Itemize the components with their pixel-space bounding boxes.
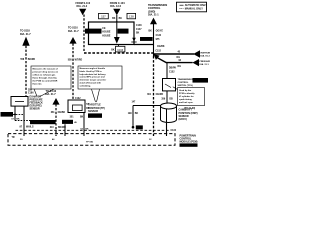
note box: PFE sensor note	[31, 66, 71, 89]
note box 2 callout V tail	[92, 89, 100, 102]
svg-text:BK: BK	[136, 32, 140, 34]
svg-text:BK/RD: BK/RD	[28, 59, 36, 61]
connector arrow TO S-110 (up arrow, x=56)	[45, 90, 60, 105]
svg-text:flow rate.: flow rate.	[33, 82, 43, 85]
wire dashed from pin x=15 to connector bar	[15, 120, 31, 122]
svg-text:MODULE (PCM): MODULE (PCM)	[180, 141, 198, 144]
svg-text:INSTRUMENT: INSTRUMENT	[200, 52, 210, 54]
svg-text:361: 361	[147, 94, 152, 96]
svg-text:DIA. 21-2: DIA. 21-2	[77, 5, 88, 8]
note box: TP sensor note	[78, 66, 122, 89]
connector bar C132b (black)	[62, 120, 73, 124]
svg-text:BK: BK	[16, 119, 20, 121]
svg-text:WH/LG: WH/LG	[26, 126, 34, 128]
svg-text:46: 46	[52, 138, 55, 141]
PFE sensor box	[11, 97, 28, 107]
wire arrowhead into module right edge	[131, 38, 136, 42]
svg-text:57: 57	[11, 119, 14, 121]
svg-text:OG/YE: OG/YE	[156, 30, 164, 32]
wire branch x=167 down to O/D switch	[166, 63, 168, 79]
svg-text:TP SIG: TP SIG	[86, 141, 93, 143]
svg-text:CONTROL: CONTROL	[178, 82, 189, 84]
note box callout tail	[173, 87, 178, 90]
connector arrow TO PRESSURE SW (left-pointing)	[192, 59, 212, 66]
svg-text:40: 40	[177, 51, 180, 54]
svg-text:975: 975	[156, 39, 161, 41]
svg-text:flows through. Used by: flows through. Used by	[33, 76, 58, 79]
svg-text:C156: C156	[120, 32, 126, 34]
wire from C-104 arrow to bus	[116, 15, 118, 22]
connector bar C156 (black)	[118, 29, 129, 34]
wire dashed vertical x=153.5 to PCM	[153, 56, 155, 136]
svg-text:CE: CE	[102, 28, 106, 30]
label THROTTLE POSITION (TP) SENSOR	[88, 104, 105, 113]
svg-text:SENSOR: SENSOR	[88, 110, 98, 113]
svg-text:C132: C132	[65, 122, 71, 124]
svg-text:and fuel sync.: and fuel sync.	[179, 102, 194, 104]
wire from switch to CMP sensor	[166, 91, 168, 104]
svg-text:the PCM to control EGR: the PCM to control EGR	[33, 79, 58, 82]
svg-text:OG/RD: OG/RD	[156, 94, 164, 96]
svg-text:138: 138	[129, 15, 134, 19]
svg-text:359: 359	[161, 99, 166, 101]
svg-text:G104: G104	[4, 115, 10, 117]
svg-text:C175: C175	[90, 32, 96, 34]
connector bar S30 (black, small)	[136, 125, 143, 129]
wire dashed from ground bar to pin	[13, 113, 23, 115]
svg-text:Measures the amount of: Measures the amount of	[33, 67, 58, 70]
svg-text:C132: C132	[156, 35, 162, 37]
svg-text:C186: C186	[28, 93, 34, 95]
svg-text:HOUSE: HOUSE	[102, 35, 111, 37]
svg-text:spark timing: spark timing	[179, 98, 192, 101]
svg-text:MANUAL ONLY: MANUAL ONLY	[185, 8, 204, 11]
svg-text:DIA. 13-6: DIA. 13-6	[110, 5, 121, 8]
legend box	[177, 2, 208, 12]
wire x=115.7 into module with down arrowhead	[114, 21, 120, 44]
svg-text:TR: TR	[12, 137, 15, 139]
PFE pin wire x=24 to PCM	[23, 106, 25, 136]
PFE pin wire x=15	[14, 106, 16, 120]
svg-text:C147: C147	[136, 28, 142, 31]
label TRANSMISSION CONTROL SWITCH	[178, 78, 195, 87]
junction dot on pin x=15	[14, 113, 16, 115]
svg-text:HOUSE: HOUSE	[102, 32, 111, 34]
svg-text:C149: C149	[197, 81, 203, 83]
svg-text:TRANSMISSION: TRANSMISSION	[178, 78, 195, 81]
svg-text:558: 558	[68, 59, 73, 61]
fuse label box 138	[127, 13, 136, 18]
svg-text:157: 157	[101, 15, 106, 19]
svg-text:147: 147	[132, 101, 137, 104]
svg-text:S110 C132: S110 C132	[37, 123, 49, 125]
svg-text:BK: BK	[111, 49, 115, 51]
svg-text:C152: C152	[155, 51, 161, 53]
wire to instrument arrow y=54	[154, 53, 195, 55]
svg-text:OG/BK: OG/BK	[157, 46, 165, 48]
connector arrow TO INSTRUMENT (left-pointing)	[193, 50, 215, 58]
connector arrow TO S110 upper (up arrow, x=73)	[68, 27, 79, 44]
svg-text:DIA. 21-7: DIA. 21-7	[20, 33, 31, 36]
stub to label box on module bottom	[118, 45, 120, 47]
svg-text:BK: BK	[119, 18, 123, 20]
wire dashed horizontal manual-only bus y=53	[84, 52, 154, 54]
svg-text:30: 30	[20, 139, 23, 141]
svg-text:C163: C163	[117, 49, 124, 52]
svg-text:PRESSURE: PRESSURE	[199, 61, 210, 63]
wire horizontal y=105.5 to CMP	[133, 105, 161, 107]
svg-text:C152: C152	[169, 71, 175, 73]
connector bar S110-C132 (black, wide)	[30, 120, 56, 125]
svg-text:BK: BK	[80, 116, 84, 118]
svg-text:DB/PK: DB/PK	[169, 68, 176, 70]
label box C163 under y=45 wire	[116, 46, 125, 52]
wire horizontal y=44.5 module bottom to junction	[134, 44, 154, 46]
wire dashed x=73 down to connector box	[72, 43, 74, 99]
svg-text:control EPC pressure and: control EPC pressure and	[80, 76, 106, 79]
svg-text:DIA. 21-1: DIA. 21-1	[148, 14, 159, 17]
connector arrow FROM C-104 (down arrow, x=115)	[110, 2, 125, 15]
svg-text:BK: BK	[148, 30, 152, 32]
CMP pin wires to PCM	[166, 123, 168, 136]
svg-text:blade. Used by PCM to: blade. Used by PCM to	[80, 70, 103, 73]
svg-text:OG: OG	[176, 57, 180, 59]
svg-text:pressure drop across an: pressure drop across an	[33, 71, 59, 73]
wire TCS vertical solid x=153.5	[153, 24, 155, 56]
wire dashed x=26 to PFE sensor	[25, 46, 27, 97]
connector arrow FROM S-110 (down arrow, x=79)	[76, 2, 91, 15]
label PRESSURE FEEDBACK EGR (PFE) SENSOR	[30, 96, 44, 111]
connector bar 12A650 (black)	[180, 143, 198, 147]
svg-text:PCM to identify: PCM to identify	[179, 92, 195, 95]
svg-text:32: 32	[149, 139, 152, 141]
wire x=56 to PCM	[55, 104, 57, 136]
svg-text:Used by the: Used by the	[179, 89, 192, 92]
svg-text:orifice as exhaust gas: orifice as exhaust gas	[33, 73, 57, 76]
connector arrow TO TRANSMISSION CONTROL SWITCH (up arrow, x=153.5)	[148, 4, 167, 24]
note box: CMP sensor note	[178, 88, 205, 106]
svg-text:OG: OG	[177, 66, 181, 68]
ground bar G104 (black)	[1, 112, 14, 117]
label POWERTRAIN CONTROL MODULE (PCM)	[180, 134, 198, 143]
svg-text:(GRAY): (GRAY)	[179, 118, 187, 121]
wire dashed vertical from FROM S-110 arrow	[83, 15, 85, 53]
svg-text:help calculate fuel delivery,: help calculate fuel delivery,	[80, 73, 107, 76]
svg-text:scheduling.: scheduling.	[80, 85, 92, 87]
svg-text:12A650: 12A650	[185, 144, 193, 147]
svg-text:DIA. 21-7: DIA. 21-7	[45, 93, 56, 96]
svg-text:DIA. 31-1: DIA. 31-1	[199, 63, 209, 66]
svg-text:Measures angle of throttle: Measures angle of throttle	[80, 67, 106, 70]
svg-text:C148: C148	[136, 24, 142, 27]
connector arrow TO S118 (hollow up arrow, x=26)	[20, 30, 31, 46]
svg-text:97: 97	[19, 126, 22, 128]
inline connector C132 dashed line	[16, 129, 171, 131]
svg-text:C167: C167	[144, 39, 150, 41]
connector bar C167 (black)	[140, 37, 153, 41]
svg-text:313: 313	[50, 127, 55, 129]
fuse label box 157	[99, 13, 109, 18]
powertrain control module (PCM) dashed box	[8, 134, 175, 146]
svg-text:C132: C132	[171, 130, 177, 132]
svg-text:558: 558	[20, 59, 25, 61]
svg-text:359: 359	[28, 90, 33, 92]
svg-text:#1 cylinder for: #1 cylinder for	[179, 96, 194, 98]
svg-text:clutch (TCC) and shift: clutch (TCC) and shift	[80, 82, 102, 85]
svg-text:DIA. 81-3: DIA. 81-3	[200, 54, 210, 57]
svg-text:SENSOR: SENSOR	[30, 107, 40, 110]
svg-text:WT/RD: WT/RD	[75, 59, 83, 61]
svg-text:BK: BK	[135, 113, 139, 115]
connector bar C175 (black)	[85, 29, 102, 34]
wire vertical x=133	[132, 106, 134, 128]
svg-text:determine torque converter: determine torque converter	[80, 79, 107, 82]
svg-text:OG/BK: OG/BK	[58, 112, 66, 114]
svg-text:361: 361	[51, 112, 56, 114]
wire to pressure switch arrow y=62.6	[166, 62, 193, 64]
wire x=65 from bar to PCM	[64, 124, 66, 136]
svg-text:199: 199	[128, 113, 133, 115]
svg-text:BK: BK	[112, 18, 116, 20]
svg-text:49: 49	[74, 121, 77, 124]
label CAMSHAFT POSITION (CMP) SENSOR	[179, 109, 198, 122]
label rows right of module	[136, 24, 142, 34]
connector bar C188 (black)	[88, 113, 102, 118]
splice dot	[132, 126, 135, 129]
svg-text:DIA. 21-7: DIA. 21-7	[68, 30, 79, 33]
junction diagonal with arrowhead (manual-only tap)	[154, 54, 167, 63]
wire x=77 from connector box to PCM	[83, 113, 85, 137]
transmission control switch box	[163, 79, 176, 91]
svg-text:SWITCH (TCS): SWITCH (TCS)	[178, 85, 193, 87]
camshaft position (CMP) sensor cylinder	[161, 103, 177, 123]
svg-text:DB: DB	[169, 99, 173, 101]
inline connector box with inner cavity	[68, 100, 85, 113]
connector bar C149 (black)	[193, 78, 209, 83]
svg-text:351: 351	[70, 116, 75, 118]
svg-text:C188: C188	[92, 116, 98, 118]
relay module box	[89, 22, 135, 45]
note box 1 callout V tail	[34, 89, 54, 97]
